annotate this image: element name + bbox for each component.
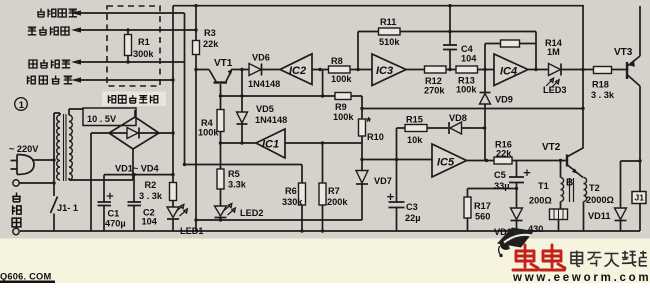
svg-text:Q606. COM: Q606. COM [0, 272, 51, 282]
svg-text:510k: 510k [379, 37, 400, 47]
svg-text:R15: R15 [406, 115, 423, 125]
svg-text:J1: J1 [635, 193, 645, 203]
svg-text:VD1~ VD4: VD1~ VD4 [115, 164, 160, 174]
svg-text:VD9: VD9 [495, 95, 513, 105]
svg-text:VD7: VD7 [374, 176, 392, 186]
svg-text:560: 560 [475, 212, 490, 222]
svg-text:VD5: VD5 [256, 104, 274, 114]
svg-text:R12: R12 [425, 76, 442, 86]
svg-text:R3: R3 [204, 28, 216, 38]
svg-text:IC2: IC2 [289, 65, 306, 77]
svg-text:IC4: IC4 [500, 66, 517, 78]
svg-text:VD11: VD11 [588, 211, 610, 221]
svg-text:100k: 100k [331, 74, 352, 84]
svg-text:2000Ω: 2000Ω [586, 195, 614, 205]
svg-text:R7: R7 [328, 186, 340, 196]
svg-text:R17: R17 [474, 201, 491, 211]
svg-text:R5: R5 [228, 169, 240, 179]
svg-text:LED3: LED3 [543, 85, 567, 95]
svg-text:C4: C4 [461, 44, 474, 54]
svg-text:330k: 330k [282, 197, 303, 207]
svg-text:R4: R4 [201, 118, 214, 128]
svg-text:C3: C3 [406, 202, 418, 212]
svg-text:www.eeworm.com: www.eeworm.com [512, 272, 650, 283]
svg-text:T1: T1 [538, 181, 549, 191]
svg-text:IC5: IC5 [437, 157, 455, 169]
svg-text:1N4148: 1N4148 [248, 79, 280, 89]
svg-text:22k: 22k [496, 149, 512, 159]
svg-text:R18: R18 [592, 80, 609, 90]
svg-text:IC3: IC3 [376, 65, 393, 77]
svg-text:3 . 3k: 3 . 3k [591, 90, 615, 100]
svg-text:100k: 100k [198, 128, 219, 138]
svg-text:R10: R10 [367, 132, 384, 142]
svg-text:22k: 22k [203, 39, 219, 49]
svg-text:22µ: 22µ [405, 213, 421, 223]
svg-text:VD8: VD8 [449, 113, 467, 123]
svg-text:1: 1 [19, 100, 25, 111]
svg-text:R2: R2 [145, 180, 157, 190]
svg-text:VT1: VT1 [214, 58, 233, 69]
svg-text:200Ω: 200Ω [529, 196, 552, 206]
svg-text:IC1: IC1 [262, 139, 279, 151]
svg-text:270k: 270k [424, 86, 445, 96]
svg-text:VT3: VT3 [614, 47, 633, 58]
svg-text:104: 104 [142, 217, 158, 227]
svg-text:VD6: VD6 [252, 53, 270, 63]
svg-text:1N4148: 1N4148 [255, 115, 287, 125]
svg-text:R8: R8 [331, 56, 343, 66]
svg-text:C5: C5 [494, 170, 506, 180]
svg-text:3 . 3k: 3 . 3k [139, 191, 163, 201]
svg-text:~ 220V: ~ 220V [9, 144, 39, 154]
svg-text:R6: R6 [285, 186, 297, 196]
svg-text:1M: 1M [547, 47, 560, 57]
svg-text:T2: T2 [589, 183, 600, 193]
svg-text:3.3k: 3.3k [228, 180, 247, 190]
svg-text:300k: 300k [133, 49, 154, 59]
svg-text:LED1: LED1 [180, 226, 204, 236]
svg-text:10 . 5V: 10 . 5V [87, 114, 117, 124]
svg-text:200k: 200k [327, 197, 348, 207]
svg-text:R9: R9 [335, 102, 347, 112]
svg-text:100k: 100k [333, 112, 354, 122]
svg-text:10k: 10k [407, 135, 423, 145]
svg-text:33µ: 33µ [494, 181, 510, 191]
svg-text:J1- 1: J1- 1 [57, 203, 78, 213]
svg-text:100k: 100k [456, 85, 477, 95]
svg-text:470µ: 470µ [105, 219, 126, 229]
svg-text:B: B [566, 178, 573, 189]
svg-text:R1: R1 [138, 37, 150, 47]
svg-text:R11: R11 [380, 17, 396, 27]
svg-text:LED2: LED2 [240, 208, 264, 218]
svg-text:C1: C1 [108, 209, 120, 219]
svg-text:VT2: VT2 [542, 142, 561, 153]
svg-text:104: 104 [461, 54, 477, 64]
